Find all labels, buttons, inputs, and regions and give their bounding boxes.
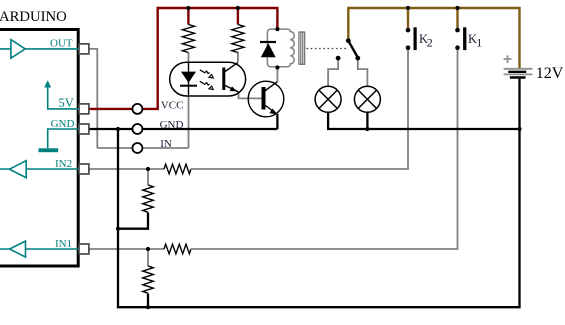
svg-text:IN2: IN2 xyxy=(55,158,72,170)
svg-text:IN: IN xyxy=(160,138,172,150)
svg-text:12V: 12V xyxy=(536,65,564,82)
svg-text:GND: GND xyxy=(160,119,184,131)
svg-text:GND: GND xyxy=(51,118,75,130)
svg-text:5V: 5V xyxy=(59,96,74,110)
svg-text:ARDUINO: ARDUINO xyxy=(0,9,67,25)
svg-text:OUT: OUT xyxy=(50,38,73,50)
svg-text:1: 1 xyxy=(476,35,482,49)
svg-text:2: 2 xyxy=(427,35,433,49)
svg-text:IN1: IN1 xyxy=(55,238,72,250)
svg-text:VCC: VCC xyxy=(161,100,184,112)
